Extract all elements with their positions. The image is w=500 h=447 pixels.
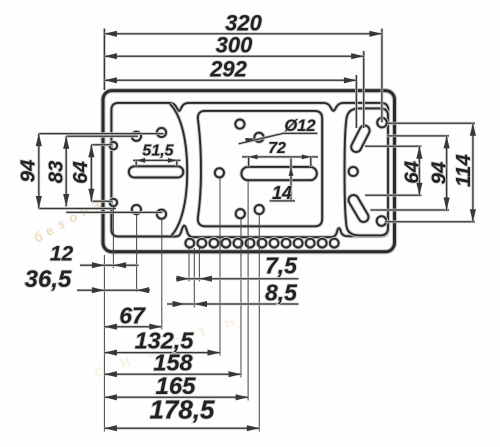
middle pocket outline bbox=[198, 111, 322, 226]
svg-text:12: 12 bbox=[50, 243, 74, 266]
ext col 241 bbox=[240, 219, 242, 378]
ext 94r top bbox=[387, 135, 449, 138]
dim 36,5 bbox=[25, 266, 150, 293]
ext 94r bottom bbox=[370, 209, 449, 212]
label diameter 12 bbox=[239, 117, 318, 144]
svg-text:178,5: 178,5 bbox=[149, 395, 215, 425]
ext col 194 bbox=[193, 248, 195, 308]
ext hole col 136 bbox=[136, 215, 138, 292]
dim 83 left bbox=[45, 136, 70, 206]
bottom circle row (13 holes) bbox=[185, 239, 338, 248]
svg-text:7,5: 7,5 bbox=[265, 253, 298, 279]
hole middle pocket top-left bbox=[235, 120, 244, 129]
svg-text:64: 64 bbox=[401, 160, 424, 183]
ext 94 bottom bbox=[39, 207, 116, 210]
ext col 248 bbox=[247, 181, 249, 401]
hole left pocket top-left bbox=[132, 132, 141, 141]
hole left margin top bbox=[110, 142, 117, 149]
hole middle pocket bottom-right bbox=[255, 205, 264, 214]
dim 67 bbox=[104, 303, 161, 330]
hole left margin bottom bbox=[110, 199, 117, 206]
ext line 320 right bbox=[381, 29, 384, 123]
ext col 189 bbox=[188, 248, 190, 282]
svg-text:300: 300 bbox=[216, 33, 253, 58]
right pocket outline bbox=[345, 108, 388, 235]
plate inner contour bbox=[111, 103, 388, 237]
ext 64 top bbox=[91, 143, 112, 146]
dim 12 bbox=[50, 243, 139, 269]
hole right pocket mid-left bbox=[349, 167, 358, 176]
hole right pocket bottom bbox=[377, 216, 387, 226]
label 14 bbox=[270, 159, 296, 204]
dim 72 bbox=[242, 140, 318, 167]
ext 64 bottom bbox=[91, 200, 112, 203]
dim 8,5 bbox=[167, 279, 299, 307]
ext 83 top bbox=[66, 135, 138, 138]
dim 320 bbox=[104, 11, 382, 37]
dim 64 right bbox=[401, 146, 424, 195]
hole left pocket top-right bbox=[157, 128, 166, 137]
dim 158 bbox=[104, 350, 241, 378]
ext line plate left top bbox=[103, 29, 106, 91]
dim 51,5 bbox=[133, 142, 181, 166]
svg-text:114: 114 bbox=[452, 154, 475, 187]
dim 292 bbox=[104, 57, 356, 84]
svg-text:158: 158 bbox=[153, 350, 193, 376]
svg-text:94: 94 bbox=[428, 161, 451, 184]
ext col 259 bbox=[258, 215, 260, 432]
ext 114 top bbox=[388, 122, 475, 125]
dim 132,5 bbox=[104, 328, 220, 356]
plate outer outline bbox=[103, 91, 395, 252]
svg-text:94: 94 bbox=[17, 159, 40, 182]
ext hole col 162 bbox=[161, 219, 163, 330]
svg-text:292: 292 bbox=[209, 57, 247, 82]
svg-text:67: 67 bbox=[119, 303, 146, 329]
ext line 300 right bbox=[362, 51, 365, 128]
svg-text:72: 72 bbox=[268, 140, 286, 157]
slot middle (72) bbox=[241, 167, 316, 180]
dim 64 left bbox=[69, 145, 95, 201]
watermark bbox=[31, 196, 237, 382]
ext 64r top bbox=[365, 145, 422, 148]
angled slot right bottom bbox=[347, 193, 371, 224]
hole middle pocket top-right (d12) bbox=[254, 133, 263, 142]
ext col 199 bbox=[198, 248, 200, 282]
svg-text:14: 14 bbox=[272, 183, 292, 203]
dim 114 bbox=[452, 123, 476, 222]
dim 300 bbox=[104, 33, 363, 60]
ext col 220 bbox=[219, 178, 221, 356]
slot left (51.5) bbox=[129, 166, 184, 177]
ext 94 top bbox=[39, 132, 164, 135]
ext 83 bottom bbox=[66, 211, 162, 214]
ext hole col 113 bbox=[112, 206, 114, 268]
dim 7,5 bbox=[176, 253, 299, 282]
svg-text:51,5: 51,5 bbox=[142, 142, 174, 159]
dim 94 left bbox=[17, 134, 42, 209]
dim 178,5 bbox=[104, 395, 259, 432]
angled slot right top bbox=[349, 124, 371, 154]
hole middle pocket bottom-left bbox=[236, 209, 245, 218]
ext 64r bottom bbox=[365, 194, 422, 197]
svg-text:64: 64 bbox=[69, 161, 92, 184]
hole middle pocket mid-left bbox=[215, 168, 224, 177]
left pocket right wall arc bbox=[170, 104, 187, 236]
svg-text:8,5: 8,5 bbox=[265, 279, 298, 305]
hole left pocket bottom-right bbox=[157, 210, 166, 219]
hole left pocket bottom-left bbox=[132, 205, 141, 214]
dim 94 right bbox=[428, 136, 451, 210]
ext line 292 right bbox=[355, 75, 358, 128]
svg-text:36,5: 36,5 bbox=[25, 266, 72, 293]
dim 165 bbox=[104, 373, 248, 400]
svg-text:83: 83 bbox=[45, 160, 68, 183]
hole right pocket top bbox=[377, 118, 387, 128]
ext 114 bottom bbox=[385, 220, 475, 223]
ext plate left bottom bbox=[103, 255, 105, 432]
